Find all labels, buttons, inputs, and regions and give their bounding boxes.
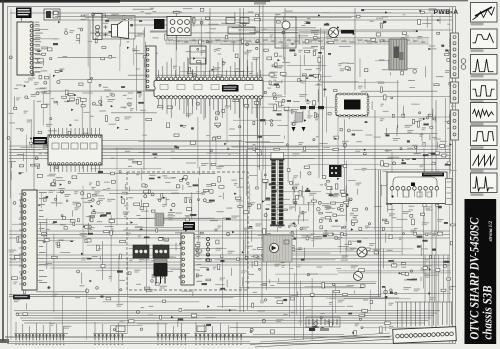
svg-text:OTVC SHARP DV-5450SC: OTVC SHARP DV-5450SC xyxy=(467,217,482,339)
svg-text:chassis S3B: chassis S3B xyxy=(481,286,495,340)
svg-text:strona 1/2: strona 1/2 xyxy=(488,221,494,243)
svg-text:PWB-A: PWB-A xyxy=(434,9,459,16)
